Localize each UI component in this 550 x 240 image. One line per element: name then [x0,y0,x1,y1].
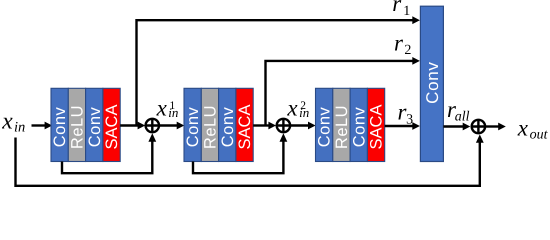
arrowhead global skip into final adder A3 [476,134,484,142]
svg-text:Conv: Conv [316,106,334,147]
svg-text:1: 1 [403,4,410,19]
adder A1 circle-plus [146,119,159,132]
block B2 ReLU bar [201,88,218,161]
wire adder A1 to block B2 [159,122,184,130]
svg-text:r: r [394,30,404,55]
wire final adder A3 to x_out [485,123,506,131]
block B2 Conv bar 1 [184,88,201,161]
wire input arrow into block B1 [32,122,53,130]
arrowhead r2 into concat conv [412,57,420,65]
block B1 Conv bar 1 [51,88,68,161]
adder A2 circle-plus [277,119,290,132]
block B3 bar labels [316,105,386,150]
wire B2 local skip under block into adder A2 [193,141,283,173]
concat conv block (tall) [420,6,443,161]
block B3 Conv bar 2 [350,88,367,161]
node x_in label [1,108,25,135]
wire r2 branch up and across to concat conv [266,61,413,126]
label r3 [398,99,414,127]
svg-text:in: in [14,119,25,135]
wire r_all from concat conv to final adder A3 [443,123,470,131]
svg-text:out: out [530,127,549,142]
label r2 [394,30,411,58]
wire adder A2 to block B3 [290,122,316,130]
svg-text:3: 3 [406,112,413,127]
svg-text:SACA: SACA [368,105,386,150]
block B1 SACA bar [103,88,120,161]
block B3 SACA bar [367,88,384,161]
block B2 Conv bar 2 [219,88,236,161]
svg-text:ReLU: ReLU [69,105,87,149]
svg-text:2: 2 [404,43,411,58]
arrowhead B2 skip into adder A2 [280,133,288,141]
svg-text:ReLU: ReLU [202,105,220,149]
svg-text:Conv: Conv [51,106,69,147]
svg-text:all: all [455,109,470,124]
svg-text:in: in [299,105,309,120]
svg-text:SACA: SACA [236,105,254,150]
node x_in^2 label [286,95,309,120]
node x_out label [517,115,549,142]
block B2 SACA bar [236,88,253,161]
block B1 ReLU bar [68,88,85,161]
wire global skip from x_in down, along bottom, up into final adder [16,138,480,186]
node x_in^1 label [156,95,179,120]
svg-text:Conv: Conv [423,61,442,104]
adder A3 final circle-plus [472,120,485,133]
svg-text:r: r [392,0,402,16]
svg-text:SACA: SACA [103,105,121,150]
svg-text:x: x [1,108,13,134]
block B3 Conv bar 1 [316,88,333,161]
svg-text:Conv: Conv [86,106,104,147]
svg-text:x: x [156,95,168,120]
svg-text:Conv: Conv [350,106,368,147]
wire B1 output to adder A1 [120,122,145,130]
block B1 Conv bar 2 [86,88,103,161]
label r1 [392,0,410,19]
arrowhead r1 into concat conv [412,16,420,24]
wire B1 local skip under block into adder A1 [62,141,152,173]
wire r3 from B3 output to concat conv [385,122,420,130]
label r_all [447,97,470,124]
svg-text:Conv: Conv [219,106,237,147]
block B2 bar labels [184,105,254,150]
svg-text:x: x [286,95,298,120]
wire r1 branch up and across to concat conv [137,20,413,125]
svg-text:Conv: Conv [184,106,202,147]
block B1 bar labels [51,105,121,150]
wire B2 output to adder A2 [253,122,276,130]
arrowhead B1 skip into adder A1 [148,133,156,141]
svg-text:x: x [517,115,529,140]
block B3 ReLU bar [333,88,350,161]
svg-text:ReLU: ReLU [333,105,351,149]
svg-text:in: in [168,105,178,120]
